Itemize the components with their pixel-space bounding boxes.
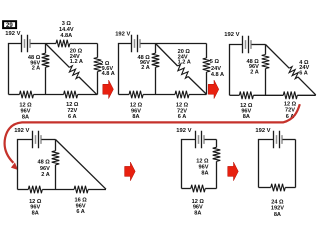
wire: C1 diagonal lower xyxy=(79,77,97,94)
wire: C4 diagonal (plain) xyxy=(56,140,107,190)
resistor 12 ohm right side xyxy=(213,147,221,161)
wire: C2 bottom middle segment xyxy=(143,94,175,96)
resistor R1 12 ohm bottom left xyxy=(20,91,34,99)
wire: C6 top segment to right corner xyxy=(282,139,295,141)
resistor 20 ohm on diagonal xyxy=(67,65,81,79)
wire: C3 left side + top-left segment xyxy=(230,45,243,96)
svg-text:2 A: 2 A xyxy=(32,66,41,72)
battery V6 plates (192 V) xyxy=(274,131,283,149)
svg-text:8A: 8A xyxy=(194,210,201,216)
wire: C4 bottom right segment xyxy=(88,189,106,191)
wire: C3 bottom left segment xyxy=(230,94,240,96)
svg-text:2 A: 2 A xyxy=(141,65,150,71)
wire: C4 bottom left segment xyxy=(18,189,29,191)
wire: C2 diagonal upper xyxy=(156,44,178,67)
wire: C1 left side + top-left segment xyxy=(9,44,22,95)
svg-text:1.2 A: 1.2 A xyxy=(178,60,191,66)
resistor R4 2 ohm right side xyxy=(94,58,102,72)
svg-text:1.2 A: 1.2 A xyxy=(70,59,83,65)
wire: C2 left side + top-left segment xyxy=(119,44,132,95)
labels 48ohm 96V 2A xyxy=(28,55,41,72)
svg-text:48 Ω: 48 Ω xyxy=(38,160,51,166)
resistor 48 ohm middle vertical xyxy=(52,151,60,165)
wire: C4 left side + top-left segment xyxy=(18,140,33,190)
battery V1 plates (192 V) xyxy=(22,35,31,53)
labels 48ohm 96V 2A xyxy=(247,59,260,76)
wire: C2 right side upper xyxy=(206,44,208,59)
svg-text:192 V: 192 V xyxy=(14,128,29,134)
svg-text:6 A: 6 A xyxy=(178,114,187,120)
wire: C5 left side + top-left segment xyxy=(182,140,196,189)
svg-text:4.8A: 4.8A xyxy=(60,33,72,39)
wire: C2 bottom left segment xyxy=(119,94,130,96)
wire: C4 middle vertical upper xyxy=(55,140,57,151)
resistor 48 ohm middle vertical xyxy=(152,53,160,67)
wire: C2 middle vertical upper xyxy=(155,44,157,54)
labels 12ohm 96V 8A xyxy=(130,103,143,121)
wire: C1 right side upper xyxy=(97,44,99,58)
svg-text:96V: 96V xyxy=(40,166,50,172)
svg-text:29: 29 xyxy=(6,22,13,29)
svg-text:8A: 8A xyxy=(22,114,29,120)
wire: C3 middle vertical lower xyxy=(265,69,267,96)
svg-text:8A: 8A xyxy=(274,212,281,218)
svg-text:192 V: 192 V xyxy=(176,128,191,134)
wire: C2 middle vertical lower xyxy=(155,67,157,94)
resistor 12 ohm bottom right (72V) xyxy=(283,92,297,100)
svg-text:192V: 192V xyxy=(271,206,284,212)
wire: C3 middle vertical upper xyxy=(265,45,267,55)
red block arrow 4 xyxy=(228,162,239,181)
wire: C6 right side xyxy=(295,140,297,188)
svg-text:72V: 72V xyxy=(285,108,295,114)
red sweep arrow from circuit 3 to circuit 4 xyxy=(5,104,300,170)
wire: C4 top segment to node xyxy=(41,139,55,141)
svg-text:192 V: 192 V xyxy=(255,128,270,134)
resistor R5 12 ohm bottom right xyxy=(64,91,78,99)
resistor R2 3 ohm on top wire xyxy=(56,40,70,48)
battery V2 plates (192 V) xyxy=(132,35,141,53)
labels 20ohm 24V 1.2A xyxy=(70,48,83,65)
resistor 4 ohm on diagonal xyxy=(287,66,300,79)
resistor 48 ohm middle vertical xyxy=(262,55,270,69)
wire: C6 left side + top-left segment xyxy=(259,140,274,188)
problem number badge 29 xyxy=(3,21,16,29)
labels 12ohm 72V 6A xyxy=(176,103,189,121)
resistor 20 ohm on diagonal xyxy=(175,64,190,79)
labels 4ohm 24V 6A xyxy=(299,60,309,77)
battery V3 plates (192 V) xyxy=(243,36,252,54)
red block arrow 2 xyxy=(208,80,219,99)
wire: C5 right side upper xyxy=(216,140,218,148)
wire: C3 diagonal upper xyxy=(266,45,290,69)
labels 48ohm 96V 2A xyxy=(38,160,51,179)
svg-text:6 A: 6 A xyxy=(68,114,77,120)
labels 48ohm 96V 2A xyxy=(138,55,151,71)
svg-text:5 Ω: 5 Ω xyxy=(210,59,220,65)
resistor 16 ohm bottom right xyxy=(74,186,88,194)
labels 5ohm 24V 4.8A xyxy=(210,59,224,78)
wire: C4 bottom middle segment xyxy=(42,189,74,191)
wire: C1 middle vertical upper xyxy=(45,44,47,54)
svg-text:6 A: 6 A xyxy=(299,71,308,77)
wire: C1 diagonal upper xyxy=(46,44,70,68)
red block arrow 1 xyxy=(103,80,114,99)
wire: C6 bottom left segment xyxy=(259,187,271,189)
wire: C6 bottom right segment xyxy=(285,187,295,189)
svg-text:192 V: 192 V xyxy=(224,32,239,38)
resistor 12 ohm bottom right (72V) xyxy=(175,91,189,99)
wire: C2 top segment to right corner xyxy=(140,43,206,45)
resistor 12 ohm bottom left (96V) xyxy=(239,92,253,100)
labels 2ohm 9.6V 4.8A xyxy=(100,61,115,77)
wire: C3 bottom right segment xyxy=(297,94,316,96)
svg-text:2 A: 2 A xyxy=(41,172,50,178)
battery V4 plates (192 V) xyxy=(33,131,42,149)
wire: C3 top segment to node xyxy=(251,44,265,46)
resistor 12 ohm bottom left xyxy=(28,186,42,194)
svg-text:6 A: 6 A xyxy=(76,209,85,215)
wire: C1 bottom left segment xyxy=(9,94,20,96)
labels 20ohm 24V 1.2A xyxy=(178,49,191,66)
svg-text:192 V: 192 V xyxy=(115,31,130,37)
red block arrow 3 xyxy=(125,162,136,181)
resistor 24 ohm bottom xyxy=(271,184,285,192)
wire: C1 bottom middle segment xyxy=(34,94,64,96)
wire: C1 middle vertical lower xyxy=(45,67,47,94)
wire: C5 top segment to right corner xyxy=(204,139,216,141)
wire: C5 bottom right segment xyxy=(205,188,216,190)
resistor 12 ohm bottom xyxy=(191,185,205,193)
labels 24ohm 192V 8A xyxy=(271,200,284,219)
labels 16ohm 96V 6A xyxy=(74,198,87,215)
svg-text:8A: 8A xyxy=(32,210,39,216)
svg-text:8A: 8A xyxy=(243,114,250,120)
wire: C2 right side lower xyxy=(206,72,208,95)
resistor R3 48 ohm middle vertical xyxy=(42,53,50,67)
wire: C2 diagonal lower xyxy=(188,77,206,95)
svg-text:4.8 A: 4.8 A xyxy=(102,71,115,77)
svg-text:4.8 A: 4.8 A xyxy=(211,72,224,78)
resistor 12 ohm bottom left (96V) xyxy=(129,91,143,99)
wire: C3 bottom middle segment xyxy=(253,94,283,96)
svg-text:24V: 24V xyxy=(211,66,221,72)
svg-text:192 V: 192 V xyxy=(5,31,20,37)
battery V5 plates (192 V) xyxy=(196,131,205,149)
wire: C3 diagonal lower xyxy=(298,77,316,95)
labels 12ohm 96V 8A xyxy=(196,159,209,177)
wire: C1 top middle segment through node xyxy=(30,43,56,45)
labels 12ohm 96V 8A xyxy=(240,103,253,120)
svg-text:2 A: 2 A xyxy=(250,70,259,76)
svg-text:8A: 8A xyxy=(132,114,139,120)
labels 12ohm 96V 8A xyxy=(19,102,32,120)
wire: C1 top right segment xyxy=(70,43,98,45)
wire: C5 right side lower xyxy=(216,161,218,188)
wire: C1 right side lower xyxy=(97,72,99,95)
svg-text:8A: 8A xyxy=(201,171,208,177)
wire: C5 bottom left segment xyxy=(182,188,191,190)
labels 12ohm 72V 6A xyxy=(284,102,297,120)
wire: C4 middle vertical lower xyxy=(55,165,57,190)
labels 3ohm 14.4V 4.8A xyxy=(59,21,74,39)
resistor 5 ohm right side xyxy=(203,58,211,72)
wire: C1 bottom right segment xyxy=(78,94,98,96)
labels 12ohm 72V 6A xyxy=(66,102,79,120)
labels 12ohm 96V 8A bottom xyxy=(192,199,205,216)
labels 12ohm 96V 8A xyxy=(29,199,42,216)
wire: C2 bottom right segment xyxy=(189,94,207,96)
